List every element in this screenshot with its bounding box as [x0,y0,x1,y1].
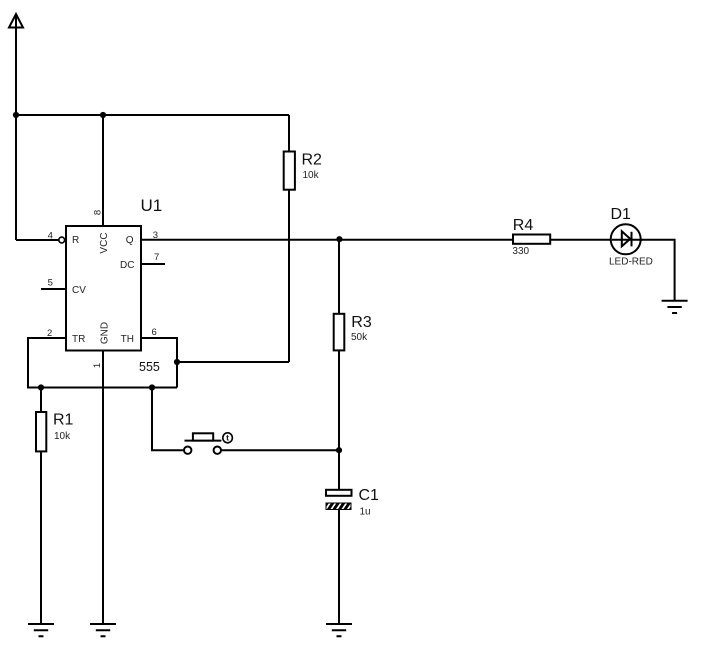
svg-text:R1: R1 [53,412,74,429]
svg-text:GND: GND [100,322,111,344]
svg-text:4: 4 [48,230,53,241]
svg-text:R3: R3 [351,314,372,331]
svg-text:8: 8 [93,210,104,215]
svg-text:R2: R2 [302,152,323,169]
svg-text:C1: C1 [359,487,380,504]
svg-text:3: 3 [153,230,158,241]
svg-text:TR: TR [72,334,85,345]
svg-text:1: 1 [92,363,103,368]
svg-text:DC: DC [120,260,134,271]
svg-text:1u: 1u [360,507,371,518]
svg-text:7: 7 [154,252,159,263]
svg-text:50k: 50k [351,332,368,343]
svg-text:D1: D1 [611,206,632,223]
svg-text:VCC: VCC [99,232,110,253]
svg-text:6: 6 [152,327,157,338]
svg-text:R: R [72,235,79,246]
svg-text:555: 555 [139,360,160,374]
svg-text:5: 5 [48,278,53,289]
svg-text:TH: TH [121,334,134,345]
svg-text:Q: Q [126,235,134,246]
svg-text:t: t [226,433,229,443]
svg-text:10k: 10k [303,170,320,181]
svg-text:LED-RED: LED-RED [609,257,653,268]
svg-text:330: 330 [512,246,529,257]
svg-text:2: 2 [47,328,52,339]
svg-text:10k: 10k [54,431,71,442]
svg-text:U1: U1 [141,196,163,215]
svg-text:R4: R4 [513,217,534,234]
svg-text:CV: CV [72,285,86,296]
